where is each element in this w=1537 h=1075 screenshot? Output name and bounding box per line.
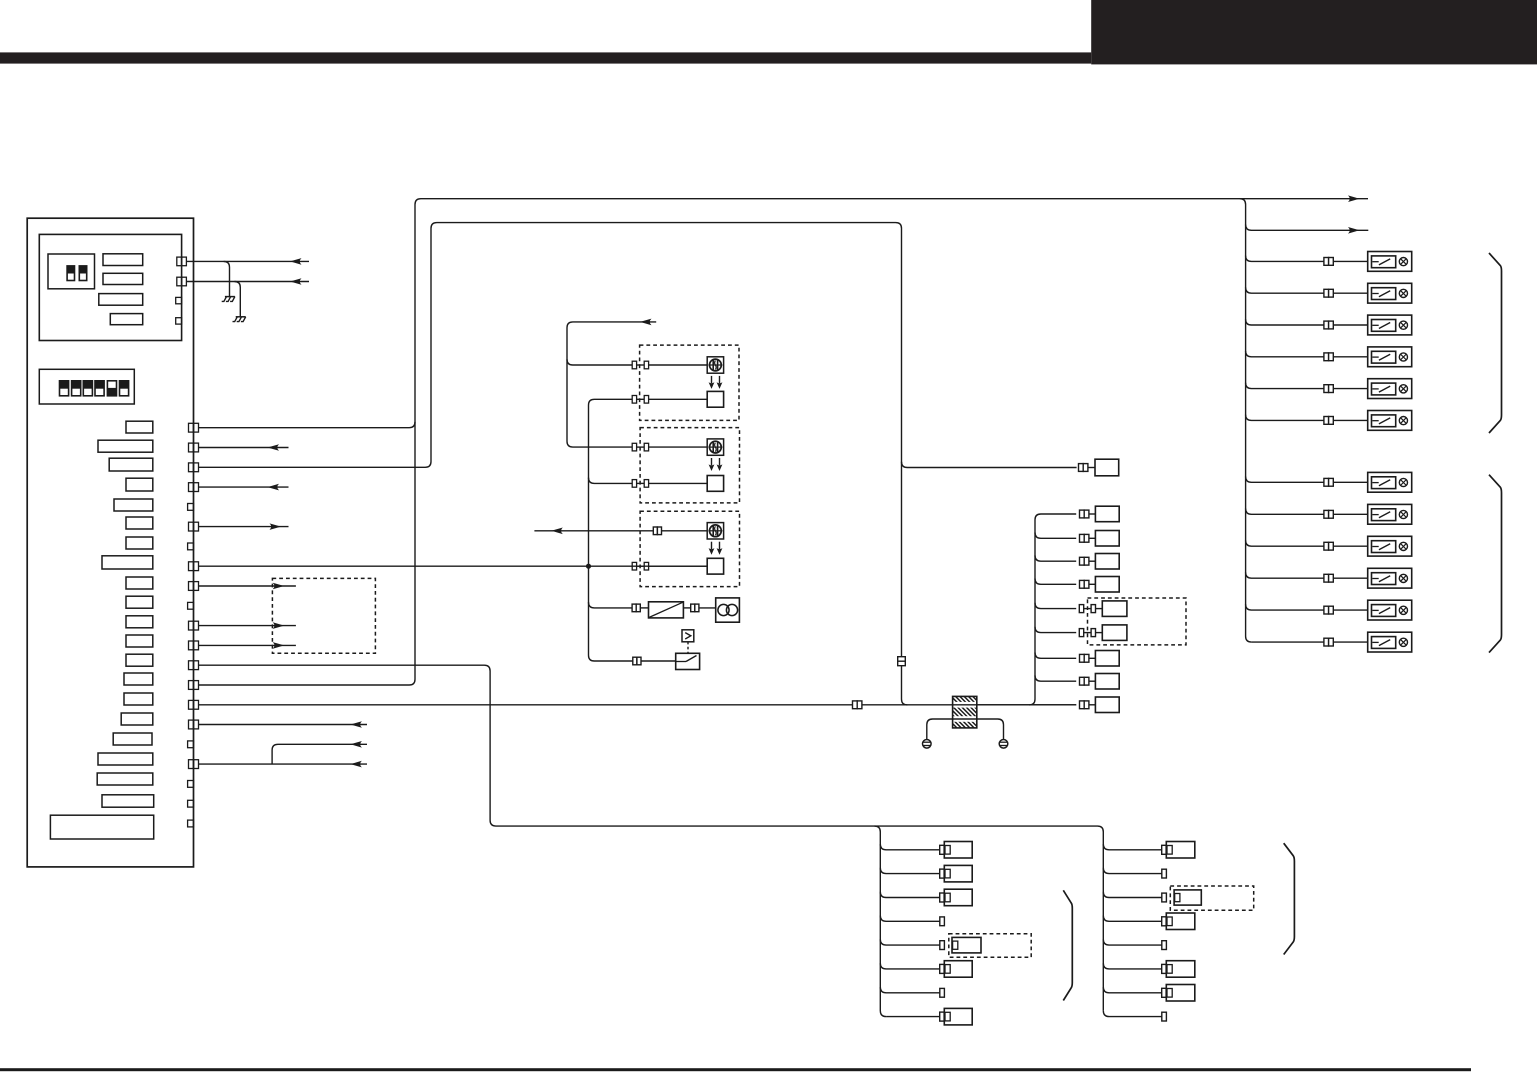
switch-lamp row 8 wire	[1246, 509, 1368, 519]
wire to ballast	[640, 607, 648, 609]
switch-lamp unit 2	[1368, 283, 1412, 303]
wire pin 18 with branch (inputs)	[199, 741, 368, 767]
label rectangle	[99, 294, 143, 306]
wire pin A1 (input)	[186, 258, 309, 265]
right tree row 2	[1103, 868, 1166, 878]
terminal label 6	[126, 517, 153, 529]
label rectangle	[103, 254, 143, 266]
fan unit 2 airflow arrows	[709, 458, 723, 471]
wire to lamp	[699, 607, 716, 609]
fan unit 3 airflow arrows	[709, 542, 723, 555]
pin 8	[189, 562, 199, 571]
wire pin 12 (to remote block)	[199, 642, 296, 649]
pin 13	[189, 661, 199, 670]
pin 16	[189, 720, 199, 729]
wire pin 6 (output)	[199, 523, 289, 530]
pin 11	[189, 621, 199, 630]
pin A1	[177, 257, 187, 266]
wire pin 15 (mains row)	[199, 704, 853, 706]
inline connector (lamp row)	[632, 604, 640, 612]
wire (mains row continued)	[862, 704, 1076, 706]
terminal label 2	[98, 440, 153, 452]
switch-lamp unit 7	[1368, 472, 1412, 492]
pin 6	[189, 522, 199, 531]
pin 20	[188, 800, 194, 807]
left tree row 2	[880, 865, 972, 882]
brace (group 2)	[1489, 475, 1502, 653]
bus branch wire	[1035, 653, 1076, 659]
mechanical link (dashed)	[687, 642, 689, 654]
label rectangle	[103, 273, 143, 284]
switch-lamp row 5 wire	[1246, 383, 1368, 393]
standalone unit row	[902, 459, 1119, 476]
terminal label 8	[102, 556, 153, 569]
terminal label 1	[126, 421, 153, 433]
dip switch S2-3	[83, 380, 94, 397]
left tree row 6	[880, 961, 972, 978]
left tree row 3	[880, 889, 972, 906]
fan unit 1 airflow arrows	[709, 376, 723, 389]
fan unit 3 enclosure (dashed)	[640, 511, 739, 586]
dip switch block S1	[48, 254, 95, 289]
wire pin 2 (input)	[199, 444, 289, 451]
dip switch S2-2	[71, 380, 82, 397]
dashed enclosure (option units)	[1088, 598, 1187, 645]
switch-lamp unit 9	[1368, 536, 1412, 556]
pin 4	[189, 483, 199, 492]
brace (group 1)	[1489, 253, 1502, 433]
fan unit 3 connector row 1	[653, 527, 661, 535]
switch-lamp row 1 wire	[1246, 256, 1368, 266]
dip switch S2-6	[119, 380, 130, 397]
unit box row (bus 3)	[1080, 554, 1120, 570]
wire fan unit 3 row 1 (input)	[534, 528, 653, 535]
wire pin 8 (to fan unit 3)	[199, 565, 708, 567]
switch-lamp row 10 wire	[1246, 572, 1368, 582]
terminal label 7	[126, 537, 153, 549]
switch-lamp row 7 wire	[1246, 477, 1368, 487]
pin 3	[189, 463, 199, 472]
fan unit 2 connector row 2	[632, 480, 648, 488]
header rule bar	[0, 52, 1091, 63]
pin 7	[188, 543, 194, 550]
terminal label 5	[114, 499, 153, 511]
wire pin 3 / inner rail / vertical feed	[199, 223, 908, 705]
ground (earth)	[923, 740, 932, 749]
terminal label 11	[126, 616, 153, 628]
pin 19	[188, 781, 194, 788]
terminal label 15	[124, 693, 153, 705]
terminal label 19	[97, 773, 153, 785]
ground (chassis)	[222, 261, 235, 301]
switch-lamp row 4 wire	[1246, 351, 1368, 361]
switch-lamp unit 12	[1368, 632, 1412, 652]
switch-lamp row 12 wire	[1251, 638, 1367, 646]
wire branch to fan unit 1	[567, 359, 632, 365]
noise filter (hatched)	[925, 696, 1012, 728]
switch-lamp unit 11	[1368, 600, 1412, 620]
wire to thermal switch	[641, 660, 676, 662]
switch-lamp unit 3	[1368, 315, 1412, 335]
pin 17	[188, 741, 194, 748]
switch-lamp row 6 wire	[1246, 415, 1368, 425]
left tree row 5 (option, dashed)	[880, 934, 1031, 958]
wire pin 4 (input)	[199, 484, 289, 491]
terminal label 20	[102, 795, 154, 807]
left tree bus	[875, 826, 887, 1017]
terminal label 17	[113, 733, 152, 745]
pin 1	[189, 423, 199, 432]
lamp LP1	[716, 598, 740, 622]
pin A4	[176, 318, 182, 324]
wire pin 13 / bottom feeder	[199, 665, 1104, 1011]
right tree row 3 (option, dashed)	[1103, 886, 1253, 910]
fan unit 1 fan motor	[707, 357, 723, 373]
pin A2	[177, 277, 187, 286]
switch-lamp unit 6	[1368, 411, 1412, 431]
terminal label 16	[121, 713, 153, 725]
dip switch S1-2	[79, 265, 88, 281]
left tree row 1	[880, 842, 972, 859]
dotted enclosure (remote block)	[272, 578, 375, 653]
switch-lamp unit 5	[1368, 379, 1412, 399]
option unit row	[1079, 601, 1127, 617]
terminal label 13	[126, 654, 153, 666]
wire pin 16 (input)	[199, 721, 368, 728]
fan unit 1 enclosure (dashed)	[640, 345, 739, 420]
junction	[586, 564, 591, 569]
wire (mains to unit row)	[977, 704, 1076, 706]
terminal label 14	[124, 673, 153, 685]
fan unit 2 connector row 1	[632, 443, 648, 451]
right tree row 1	[1103, 842, 1195, 859]
ground lead (left)	[927, 719, 1004, 739]
wire (fan supply A)	[567, 319, 656, 448]
fan unit 3 connector row 2	[632, 562, 648, 570]
switch-lamp unit 4	[1368, 347, 1412, 367]
terminal label 12	[126, 635, 153, 647]
unit box row (bus 7)	[1080, 651, 1120, 667]
fan unit 2 enclosure (dashed)	[640, 428, 739, 503]
unit box row (bus 1)	[1080, 506, 1120, 522]
terminal label 9	[126, 577, 153, 589]
brace (left tree)	[1063, 890, 1072, 1000]
pin 15	[189, 700, 199, 709]
ground (chassis)	[233, 282, 246, 322]
dip switch block S2	[39, 369, 134, 404]
wire pin 9 (to remote block)	[199, 583, 296, 590]
fan unit 3 wire row 1	[662, 530, 708, 532]
inline connector	[853, 701, 862, 709]
left tree row 7	[880, 987, 944, 997]
fan unit 2 motor block	[707, 476, 723, 492]
bus branch arrow (output)	[1246, 225, 1369, 234]
pin 12	[189, 641, 199, 650]
fan unit 1 motor block	[707, 391, 723, 407]
thermal switch	[676, 653, 700, 669]
pin 21	[188, 820, 194, 827]
fan unit 3 fan motor	[707, 523, 723, 539]
fan unit 1 wire row 2	[637, 398, 708, 400]
inline connector (thermal row)	[633, 657, 641, 665]
pin 14	[189, 681, 199, 690]
pin 9	[189, 582, 199, 591]
control unit outer box	[27, 218, 193, 867]
fan unit 2 fan motor	[707, 439, 723, 455]
pin 10	[188, 602, 194, 609]
wire (fan return B)	[589, 399, 634, 661]
terminal label 4	[126, 478, 153, 491]
bus branch wire	[1035, 627, 1076, 633]
bus branch wire	[1035, 675, 1076, 681]
wire pin 14 / trunk / top supply rail	[199, 195, 1369, 685]
inline connector (lamp row 2)	[691, 604, 699, 612]
fan unit 2 wire row 1	[637, 446, 708, 448]
pin A3	[176, 297, 182, 303]
pin 2	[189, 443, 199, 452]
option unit row	[1079, 625, 1127, 641]
relay bank bus	[1240, 199, 1252, 642]
right tree row 4	[1103, 913, 1195, 930]
bus branch wire	[1035, 533, 1076, 539]
terminal label 10	[126, 596, 153, 608]
terminal label 18	[98, 753, 153, 765]
lamp ballast (diagonal box)	[649, 602, 684, 618]
dip switch S1-1	[66, 265, 75, 281]
sub-board box	[39, 234, 181, 340]
dip switch S2-1	[59, 380, 70, 397]
left tree row 4	[880, 916, 944, 926]
right tree row 8	[1103, 1011, 1166, 1021]
brace (right tree)	[1284, 843, 1295, 954]
right tree row 5	[1103, 939, 1166, 949]
wire ballast to connector	[683, 607, 690, 609]
connector on vertical feed	[898, 657, 906, 666]
vertical bus (middle right)	[1029, 514, 1076, 705]
switch-lamp unit 10	[1368, 568, 1412, 588]
unit box row (bus 2)	[1080, 531, 1120, 547]
wire pin 11 (to remote block)	[199, 622, 296, 629]
switch-lamp unit 8	[1368, 504, 1412, 524]
unit box row (bus 4)	[1080, 577, 1120, 593]
left tree row 8	[886, 1008, 972, 1025]
wire branch to fan unit 2 row 2	[589, 478, 633, 484]
thermal sensor	[682, 630, 694, 642]
dip switch S2-4	[94, 380, 105, 397]
wire pin A2 (input)	[186, 278, 309, 285]
title block (black)	[1091, 0, 1537, 64]
wire branch to lamp row	[589, 602, 633, 608]
label rectangle	[110, 314, 142, 325]
bus branch wire	[1035, 555, 1076, 561]
switch-lamp row 11 wire	[1246, 604, 1368, 614]
terminal label 3	[109, 458, 153, 471]
fan unit 2 wire row 2	[637, 482, 708, 484]
ground (earth)	[999, 740, 1008, 749]
unit box row (bus 8)	[1080, 674, 1120, 690]
right tree row 6	[1103, 961, 1195, 978]
wire pin 1 (joins trunk)	[199, 422, 416, 428]
switch-lamp row 3 wire	[1246, 319, 1368, 329]
fan unit 3 wire row 2	[637, 565, 708, 567]
bottom rule	[0, 1068, 1471, 1071]
fan unit 3 motor block	[707, 558, 723, 574]
fan unit 1 wire row 1	[637, 364, 708, 366]
switch-lamp row 2 wire	[1246, 287, 1368, 297]
bus branch wire	[1035, 603, 1076, 609]
right tree row 7	[1103, 985, 1195, 1002]
switch-lamp row 9 wire	[1246, 540, 1368, 550]
pin 5	[188, 504, 194, 511]
switch-lamp unit 1	[1368, 252, 1412, 272]
dip switch S2-5	[107, 380, 118, 397]
bus branch wire	[1035, 579, 1076, 585]
pin 18	[189, 760, 199, 769]
terminal label 21	[50, 815, 153, 839]
fan unit 1 connector row 1	[632, 361, 648, 369]
fan unit 1 connector row 2	[632, 396, 648, 404]
unit box row (mains)	[1080, 697, 1120, 713]
